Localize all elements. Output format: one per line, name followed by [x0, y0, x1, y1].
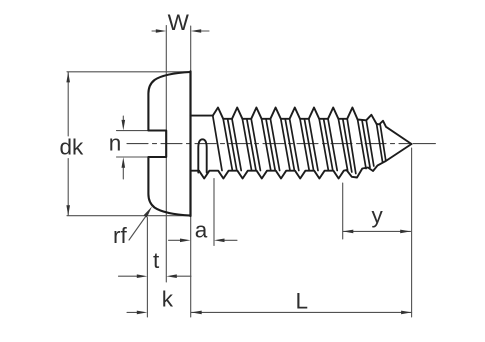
dim k/L line and arrows [127, 311, 412, 313]
svg-text:rf: rf [113, 223, 127, 248]
svg-text:t: t [153, 248, 160, 273]
extension line dk bottom [67, 215, 191, 217]
dim n arrows [122, 116, 124, 179]
head outline pan head [148, 72, 190, 216]
rf leader [129, 216, 146, 240]
extension line L-right (tip) [411, 148, 413, 317]
thread top profile [213, 108, 412, 145]
extension line W-right upper [190, 26, 192, 72]
svg-text:W: W [168, 10, 190, 35]
svg-text:L: L [296, 288, 309, 313]
extension line t-left / k-left [146, 218, 148, 318]
extension line y-left [342, 183, 344, 239]
svg-text:n: n [109, 130, 122, 155]
extension line dk top [67, 71, 191, 73]
shank bottom flat [191, 170, 200, 172]
extension line a-right (thread start) [213, 179, 215, 246]
head bearing face [189, 71, 191, 216]
dim a arrows [169, 239, 238, 241]
shank top flat [191, 115, 213, 117]
svg-text:k: k [162, 287, 174, 312]
svg-text:y: y [372, 203, 384, 228]
dim dk line and arrows [67, 72, 69, 215]
thread helix lines [213, 116, 386, 174]
dim t arrows [119, 275, 192, 277]
dim y line and arrows [343, 230, 411, 232]
thread runout arch [198, 139, 206, 172]
extension line n top [117, 130, 149, 132]
extension line head-face lower (a/k/L) [190, 216, 192, 317]
extension line W-left / slot bottom / t-right [165, 26, 167, 283]
centerline screw axis [127, 143, 410, 145]
dim W arrows and lines [152, 30, 209, 32]
svg-text:dk: dk [60, 135, 85, 160]
extension line n bottom [117, 156, 149, 158]
thread bottom profile [199, 144, 412, 179]
svg-text:a: a [195, 217, 208, 242]
